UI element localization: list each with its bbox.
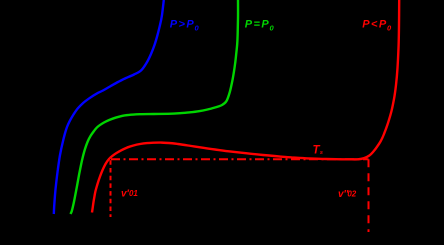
isobar curve P=Pc (green) (71, 0, 239, 214)
isobar curve P>Pc (blue) (54, 0, 164, 214)
dashed vertical line at v''02 (368, 159, 370, 232)
svg-text:P>P0: P>P0 (170, 19, 200, 33)
svg-text:Ts: Ts (313, 145, 323, 157)
saturation temperature dash-dot horizontal line Ts (111, 158, 369, 160)
svg-text:P=P0: P=P0 (245, 19, 275, 33)
dash-dot vertical line at v'01 (110, 160, 112, 217)
svg-text:v′01: v′01 (121, 189, 138, 200)
isobar curve P<Pc (red) (92, 0, 399, 213)
svg-text:v″02: v″02 (338, 189, 357, 200)
svg-text:P<P0: P<P0 (362, 19, 392, 33)
